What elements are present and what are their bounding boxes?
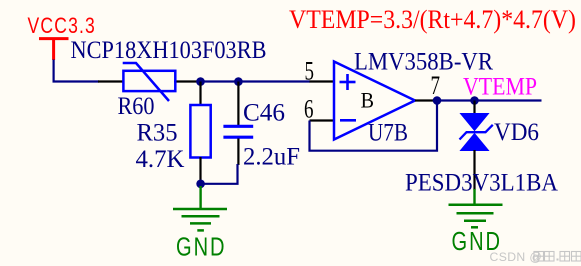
svg-text:VCC3.3: VCC3.3: [28, 13, 97, 38]
label designator R35: [137, 119, 178, 146]
capacitor C46 pin 1: [237, 82, 239, 126]
svg-text:5: 5: [305, 57, 315, 86]
power port VCC3.3 bar symbol: [39, 39, 69, 60]
svg-text:2.2uF: 2.2uF: [243, 144, 300, 171]
junction dot C bottom: [196, 180, 205, 189]
ground GND right bars: [449, 205, 503, 228]
junction dot A: [196, 77, 205, 86]
op-amp plus input mark: [340, 74, 356, 90]
pin R60.2: [174, 80, 200, 82]
op-amp U7B pin 5: [310, 80, 335, 82]
svg-text:VTEMP: VTEMP: [463, 74, 537, 101]
svg-text:GND: GND: [176, 234, 227, 262]
junction dot output: [433, 96, 442, 105]
label pin number 5: [305, 57, 315, 86]
label R60 value NCP18XH103F03RB: [71, 37, 267, 64]
op-amp U7B triangle body: [334, 62, 415, 140]
wire VCC to thermistor: [54, 60, 99, 82]
ground GND left label: [176, 234, 227, 262]
ground GND right label: [452, 228, 503, 256]
wire bottom C46 to junction: [201, 164, 238, 184]
op-amp output pin 7: [415, 99, 437, 101]
label op-amp part B: [361, 87, 374, 112]
svg-text:B: B: [361, 87, 374, 112]
pin R60.1: [98, 80, 124, 82]
label pin number 7: [431, 71, 441, 100]
resistor R35 pin 1: [199, 82, 201, 107]
power port VCC3.3 label: [28, 13, 97, 38]
svg-text:NCP18XH103F03RB: NCP18XH103F03RB: [71, 37, 267, 64]
junction dot VD6: [470, 96, 479, 105]
svg-text:4.7K: 4.7K: [136, 146, 185, 173]
svg-text:R60: R60: [118, 93, 155, 120]
annotation formula text: [289, 5, 576, 34]
svg-text:VD6: VD6: [494, 119, 539, 146]
label part number LMV358B-VR: [354, 48, 493, 75]
capacitor C46 plates: [223, 126, 253, 137]
label pin number 6: [304, 95, 314, 124]
svg-text:C46: C46: [243, 99, 285, 126]
thermistor R60 body: [123, 63, 176, 101]
capacitor C46 pin 2: [237, 139, 239, 166]
label designator VD6: [494, 119, 539, 146]
diode VD6 pin 2: [473, 150, 475, 190]
watermark CSDN: [490, 250, 581, 264]
junction dot B: [234, 77, 243, 86]
svg-text:VTEMP=3.3/(Rt+4.7)*4.7(V): VTEMP=3.3/(Rt+4.7)*4.7(V): [289, 5, 576, 34]
label VD6 part PESD3V3L1BA: [405, 170, 558, 197]
svg-text:U7B: U7B: [368, 119, 408, 146]
svg-text:R35: R35: [137, 119, 178, 146]
resistor R35 pin 2: [199, 157, 201, 184]
ground GND left bars: [173, 209, 227, 230]
wire output net VTEMP: [437, 99, 542, 101]
label designator U7B: [368, 119, 408, 146]
svg-text:7: 7: [431, 71, 441, 100]
wire between junctions: [201, 80, 239, 82]
label designator R60: [118, 93, 155, 120]
op-amp minus input mark: [340, 119, 356, 122]
label designator C46: [243, 99, 285, 126]
svg-text:LMV358B-VR: LMV358B-VR: [354, 48, 493, 75]
resistor R35 body: [190, 105, 210, 158]
op-amp U7B pin 6: [310, 119, 335, 121]
svg-text:PESD3V3L1BA: PESD3V3L1BA: [405, 170, 558, 197]
svg-text:6: 6: [304, 95, 314, 124]
wire feedback loop: [310, 101, 438, 151]
wire junction B to opamp pin5: [238, 80, 310, 82]
label R35 value 4.7K: [136, 146, 185, 173]
diode VD6 TVS body: [460, 114, 493, 151]
ground GND left stem: [199, 186, 201, 209]
ground GND right stem: [473, 189, 475, 205]
diode VD6 pin 1: [473, 101, 475, 115]
label C46 value 2.2uF: [243, 144, 300, 171]
net label VTEMP: [463, 74, 537, 101]
